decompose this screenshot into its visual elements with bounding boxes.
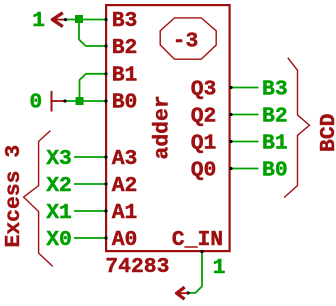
node dot B2 pin (104, 44, 107, 47)
svg-text:1: 1 (32, 9, 45, 33)
svg-text:74283: 74283 (105, 255, 169, 279)
node dot A2 (104, 182, 107, 185)
node dot C_IN pin (200, 250, 203, 253)
node dot B1 pin (104, 72, 107, 75)
svg-text:X0: X0 (46, 228, 72, 252)
wire Q3 (231, 87, 259, 89)
svg-text:X2: X2 (46, 174, 72, 198)
wire branch to B2 (79, 21, 106, 46)
svg-text:X1: X1 (46, 201, 72, 225)
junction B3/B2 (75, 15, 83, 23)
svg-text:B1: B1 (262, 132, 288, 156)
wire branch to B1 (80, 74, 107, 100)
zero source terminal (52, 91, 66, 112)
adder U1 74283 body (106, 5, 230, 251)
constant octagon -3 (160, 18, 216, 59)
brace Excess 3 group (24, 131, 53, 267)
node dot Q1 (229, 140, 232, 143)
svg-text:1: 1 (213, 256, 226, 280)
svg-text:Q2: Q2 (191, 105, 217, 129)
wire A2 (74, 183, 106, 185)
node dot Q2 (229, 113, 232, 116)
wire B0 net (65, 100, 106, 102)
svg-text:B2: B2 (112, 36, 138, 60)
wire A0 (74, 237, 106, 239)
svg-text:B0: B0 (112, 91, 138, 115)
junction B1/B0 (76, 97, 84, 105)
svg-text:B1: B1 (112, 64, 138, 88)
svg-text:Q0: Q0 (191, 159, 217, 183)
svg-text:0: 0 (29, 91, 42, 115)
node dot arrow top (64, 18, 67, 21)
node dot arrow bottom (186, 291, 189, 294)
node dot A3 (104, 155, 107, 158)
wire Q2 (231, 114, 259, 116)
node dot Q3 (229, 86, 232, 89)
svg-text:B3: B3 (112, 9, 138, 33)
svg-text:Q3: Q3 (191, 78, 217, 102)
svg-text:-3: -3 (173, 30, 199, 54)
wire B3 net (66, 19, 106, 21)
node dot A0 (104, 236, 107, 239)
svg-text:B0: B0 (262, 159, 288, 183)
node dot B3 pin (104, 18, 107, 21)
node dot Q0 (229, 167, 232, 170)
from-connector arrow bottom (175, 287, 188, 299)
wire Q0 (231, 168, 259, 170)
svg-text:A3: A3 (112, 147, 138, 171)
wire Q1 (231, 141, 259, 143)
from-connector arrow top (51, 13, 66, 27)
svg-text:BCD: BCD (317, 113, 336, 152)
svg-text:A1: A1 (112, 201, 138, 225)
svg-text:X3: X3 (46, 147, 72, 171)
wire A3 (74, 156, 106, 158)
svg-text:adder: adder (151, 95, 175, 159)
wire C_IN net (188, 252, 203, 293)
svg-text:B3: B3 (262, 78, 288, 102)
brace BCD group (284, 58, 309, 198)
svg-text:C_IN: C_IN (172, 228, 223, 252)
wire A1 (74, 210, 106, 212)
svg-text:B2: B2 (262, 105, 288, 129)
node dot A1 (104, 209, 107, 212)
node dot zero source (63, 99, 66, 102)
node dot B0 pin (104, 99, 107, 102)
svg-text:Excess 3: Excess 3 (2, 145, 26, 248)
svg-text:Q1: Q1 (191, 132, 217, 156)
svg-text:A2: A2 (112, 174, 138, 198)
svg-text:A0: A0 (112, 228, 138, 252)
